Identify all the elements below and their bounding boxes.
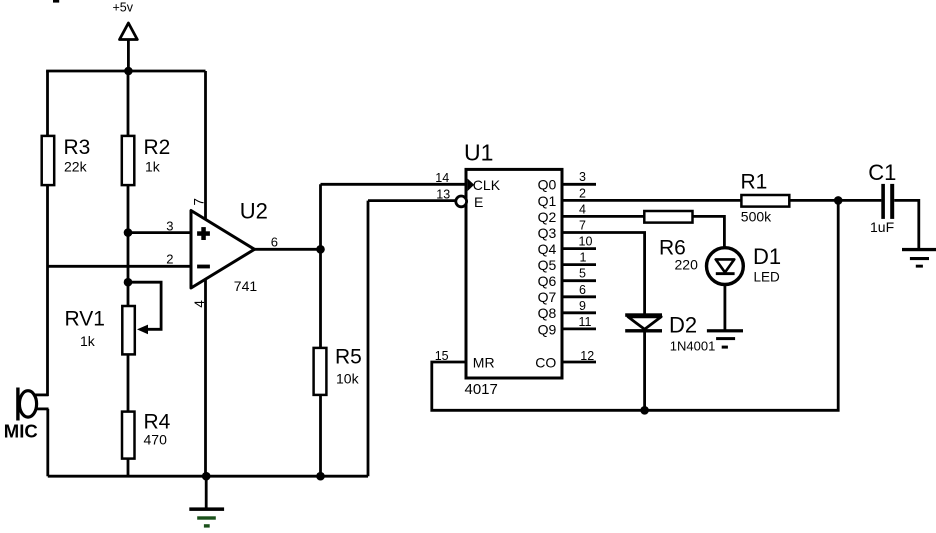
svg-text:22k: 22k	[64, 158, 88, 174]
svg-text:7: 7	[579, 219, 586, 233]
svg-text:10: 10	[579, 235, 593, 249]
svg-text:1uF: 1uF	[870, 219, 894, 235]
svg-text:MIC: MIC	[4, 421, 38, 442]
svg-text:Q3: Q3	[538, 225, 557, 241]
svg-text:4: 4	[192, 300, 207, 308]
svg-text:13: 13	[436, 187, 450, 201]
svg-text:14: 14	[435, 171, 449, 185]
svg-text:Q9: Q9	[538, 321, 557, 337]
svg-text:U1: U1	[464, 140, 493, 166]
svg-text:3: 3	[166, 218, 173, 233]
svg-text:9: 9	[579, 299, 586, 313]
svg-text:CO: CO	[535, 355, 556, 371]
svg-text:U2: U2	[240, 199, 268, 224]
svg-text:+5v: +5v	[113, 1, 134, 15]
svg-text:2: 2	[166, 251, 173, 266]
svg-text:220: 220	[675, 257, 699, 273]
svg-text:7: 7	[191, 198, 206, 206]
svg-text:Q1: Q1	[538, 193, 557, 209]
svg-text:Q8: Q8	[538, 305, 557, 321]
svg-text:500k: 500k	[741, 209, 772, 225]
svg-text:R1: R1	[741, 171, 768, 194]
svg-text:D1: D1	[753, 244, 781, 269]
svg-text:MR: MR	[473, 355, 495, 371]
svg-text:Q7: Q7	[538, 289, 557, 305]
svg-text:C1: C1	[868, 160, 896, 185]
svg-text:3: 3	[579, 170, 586, 184]
svg-text:Q4: Q4	[538, 241, 557, 257]
svg-text:6: 6	[579, 283, 586, 297]
svg-text:10k: 10k	[336, 371, 360, 387]
svg-text:1N4001: 1N4001	[670, 339, 716, 354]
svg-text:Q5: Q5	[538, 257, 557, 273]
svg-text:Q2: Q2	[538, 209, 557, 225]
svg-text:CLK: CLK	[473, 177, 501, 193]
svg-text:1k: 1k	[80, 333, 96, 349]
svg-text:D2: D2	[669, 312, 697, 337]
svg-text:1k: 1k	[145, 158, 161, 174]
svg-text:6: 6	[271, 235, 278, 250]
svg-text:11: 11	[579, 315, 592, 329]
svg-text:RV1: RV1	[65, 307, 105, 330]
svg-text:15: 15	[435, 349, 449, 363]
svg-text:4017: 4017	[465, 381, 498, 398]
svg-text:R4: R4	[144, 410, 171, 433]
svg-text:Q0: Q0	[538, 177, 557, 193]
svg-text:LED: LED	[754, 270, 781, 285]
svg-text:R2: R2	[144, 136, 171, 159]
svg-text:2: 2	[579, 187, 586, 201]
svg-text:Q6: Q6	[538, 273, 557, 289]
svg-text:12: 12	[580, 349, 594, 363]
svg-text:5: 5	[579, 267, 586, 281]
svg-text:R5: R5	[335, 345, 362, 368]
svg-text:E: E	[474, 194, 483, 210]
svg-text:R3: R3	[64, 136, 91, 159]
svg-text:1: 1	[580, 251, 587, 265]
svg-text:741: 741	[234, 278, 258, 294]
svg-text:470: 470	[144, 432, 168, 448]
svg-text:4: 4	[579, 203, 586, 217]
